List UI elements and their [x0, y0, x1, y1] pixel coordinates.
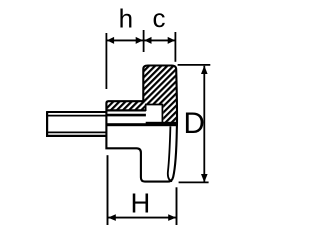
svg-text:c: c [153, 3, 166, 33]
insert square top line [145, 104, 163, 106]
svg-text:H: H [131, 187, 151, 218]
svg-text:h: h [119, 3, 133, 33]
stud thread bottom line [48, 131, 106, 133]
arrow D bottom [201, 174, 208, 182]
dim line D [203, 66, 205, 182]
svg-text:D: D [184, 107, 205, 140]
knob outline [106, 66, 177, 182]
insert square right line [161, 105, 163, 126]
tapped hole top line [107, 114, 146, 117]
dim line h and c [106, 39, 175, 41]
dim h extension line left [105, 33, 107, 89]
arrow c right [168, 37, 175, 44]
dim h/c extension line middle [143, 30, 145, 52]
dim D extension line top [178, 64, 211, 66]
dim H extension line right [176, 187, 178, 225]
stud left edge [46, 111, 48, 137]
arrow H right [168, 214, 176, 221]
dim H extension line left [107, 155, 109, 225]
stud bottom line [47, 135, 106, 137]
dim c extension line right [174, 32, 176, 62]
dim D extension line bottom [179, 181, 209, 183]
insert square left edge line [145, 105, 147, 112]
arrow H left [108, 214, 116, 221]
arrow c left [144, 37, 151, 44]
stud thread top line [48, 115, 106, 117]
knob section hatched area [106, 66, 177, 125]
arrow D top [201, 66, 208, 74]
flange bottom line [107, 109, 146, 111]
skirt rim edge line [168, 126, 172, 181]
arrow h left [107, 37, 114, 44]
axis section boundary thick line [107, 123, 177, 126]
arrow h right [136, 37, 143, 44]
dim line H [108, 217, 177, 219]
stud top line [47, 111, 106, 113]
